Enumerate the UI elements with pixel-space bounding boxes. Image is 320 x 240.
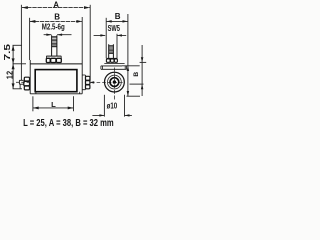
svg-text:12: 12	[6, 70, 15, 79]
svg-text:M2.5-6g: M2.5-6g	[42, 22, 65, 31]
svg-text:B: B	[115, 12, 121, 21]
svg-text:A: A	[53, 0, 59, 9]
svg-text:B: B	[133, 72, 140, 77]
svg-text:SW5: SW5	[108, 24, 121, 33]
svg-text:B: B	[54, 12, 60, 21]
svg-text:7.5: 7.5	[2, 44, 12, 61]
svg-text:ø10: ø10	[107, 101, 118, 111]
svg-text:L = 25, A = 38, B = 32 mm: L = 25, A = 38, B = 32 mm	[23, 118, 114, 128]
svg-text:L: L	[51, 100, 56, 109]
